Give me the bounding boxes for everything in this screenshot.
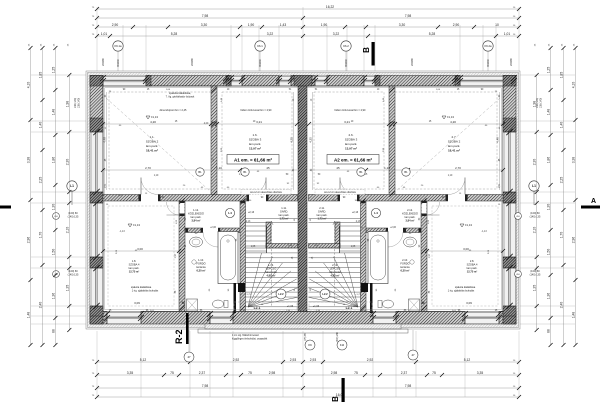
svg-text:1.8.: 1.8.	[132, 259, 137, 263]
extension line top short x259	[258, 25, 260, 71]
svg-text:szer-2 cm akusztikus díszülés: szer-2 cm akusztikus díszülés	[250, 191, 283, 194]
svg-text:M: M	[182, 301, 185, 305]
szoba4 dim line right	[425, 247, 505, 253]
room label 2.7 SZOBA 2	[448, 135, 461, 153]
interior face outline	[103, 86, 503, 312]
svg-text:3,21: 3,21	[344, 120, 350, 124]
window spec right 2	[530, 270, 541, 276]
door jamb block 421.5,201	[422, 201, 427, 203]
area label A1	[227, 155, 279, 165]
svg-text:4,20: 4,20	[450, 120, 456, 124]
svg-text:L1: L1	[70, 184, 74, 188]
svg-text:3,84 m²: 3,84 m²	[406, 219, 415, 223]
marker L1 right	[529, 181, 539, 191]
dashed line room 2.6	[314, 92, 384, 189]
svg-text:lam.park.: lam.park.	[467, 266, 478, 270]
ceiling dashed outline room 2.7	[395, 92, 497, 189]
svg-text:M: M	[422, 301, 425, 305]
top dimension chain halves	[95, 14, 521, 20]
svg-text:5,28: 5,28	[171, 32, 178, 36]
window right W10	[503, 132, 516, 192]
jamb tick side y132 x96.5	[93, 129, 99, 135]
jamb tick bottom x499	[496, 311, 502, 317]
svg-text:1 ríg. ujjalakítás burkolás: 1 ríg. ujjalakítás burkolás	[448, 289, 475, 292]
svg-text:A: A	[591, 198, 596, 205]
section mark B top	[362, 42, 375, 66]
leader 47 right	[412, 330, 414, 350]
svg-text:L1: L1	[532, 184, 536, 188]
svg-text:1,73 m²: 1,73 m²	[280, 217, 289, 221]
window top W5 right	[364, 76, 375, 87]
svg-text:2,93: 2,93	[290, 358, 297, 362]
interior jamb tick 363,201	[360, 198, 365, 203]
extension line right y306	[520, 305, 575, 307]
svg-text:1,40: 1,40	[560, 122, 564, 129]
window spec circle left 1	[53, 213, 60, 220]
svg-text:90/240: 90/240	[259, 59, 262, 67]
marker B1 d	[402, 168, 410, 176]
left wall pier 4	[90, 306, 103, 316]
mid wall left unit	[103, 195, 298, 202]
svg-text:2,90: 2,90	[453, 23, 460, 27]
bottom dim chain 2	[95, 371, 521, 377]
exterior wall right	[503, 76, 516, 324]
svg-text:135 (140): 135 (140)	[77, 98, 80, 108]
extension line left y75	[31, 74, 86, 76]
room label 1.10 FÜRDŐ	[196, 258, 206, 273]
interior jamb tick 214,124	[211, 121, 216, 126]
svg-text:1 ríg. ujjalakítás burkolás: 1 ríg. ujjalakítás burkolás	[132, 289, 159, 292]
svg-text:+1,06: +1,06	[287, 305, 294, 308]
jamb tick bottom x210	[207, 311, 213, 317]
svg-text:220/90: 220/90	[102, 58, 105, 66]
extension line right y324	[520, 323, 575, 325]
svg-text:1,30: 1,30	[51, 204, 55, 211]
entrance canopy dashed left	[234, 302, 297, 311]
svg-text:1,51: 1,51	[499, 183, 501, 188]
window spec right 1	[530, 212, 541, 218]
svg-text:1,70: 1,70	[39, 232, 43, 239]
extension line bottom x233	[232, 331, 234, 397]
dashed outline szoba4 left	[108, 206, 174, 306]
party wall	[298, 86, 307, 312]
svg-text:2.13.: 2.13.	[332, 263, 338, 267]
ceiling dashed outline room 1.1	[109, 92, 211, 189]
interior jamb tick 392,194	[389, 191, 394, 196]
svg-text:+1,73: +1,73	[355, 294, 361, 296]
duct wall right b	[361, 283, 368, 292]
bath/stair wall left	[240, 201, 246, 312]
right dim chain 4	[533, 73, 539, 332]
svg-text:1,85: 1,85	[560, 72, 564, 79]
top wall jamb d	[375, 76, 380, 87]
svg-text:K6.2: K6.2	[343, 44, 349, 48]
jamb tick side y268 x96.5	[93, 265, 99, 271]
diagonal fold line room 1.1	[106, 98, 211, 192]
corridor dim line left	[101, 166, 297, 172]
interior jamb tick 214,194	[211, 191, 216, 196]
svg-text:1,73 m²: 1,73 m²	[318, 217, 327, 221]
svg-text:3,38: 3,38	[572, 157, 576, 164]
svg-text:1,90: 1,90	[248, 23, 255, 27]
svg-text:3,22: 3,22	[333, 32, 340, 36]
window top W6 szoba2 right	[460, 76, 514, 87]
svg-text:+1,73: +1,73	[245, 294, 251, 296]
wall szoba4/fürdő right	[421, 201, 427, 312]
extension line left y306	[31, 305, 86, 307]
svg-text:2,13: 2,13	[356, 221, 361, 223]
top dimension chain openings	[95, 32, 521, 38]
svg-text:lam.park.: lam.park.	[129, 266, 140, 270]
svg-text:L2.2: L2.2	[278, 292, 284, 296]
jamb tick top x279	[276, 75, 282, 81]
svg-text:A1 em. = 61,66 m²: A1 em. = 61,66 m²	[234, 157, 272, 162]
left wall pier 3	[90, 257, 103, 268]
svg-text:1,48: 1,48	[572, 312, 576, 319]
marker R-2	[174, 313, 189, 344]
mid wall door right unit b	[446, 178, 468, 202]
extension line top short x242	[241, 25, 243, 71]
mid wall right unit	[309, 195, 504, 202]
extension line right y316	[520, 315, 575, 317]
extension line right y268	[520, 267, 575, 269]
svg-text:1.12.: 1.12.	[193, 208, 199, 212]
extension line top short x483	[482, 25, 484, 71]
room label 1.8 SZOBA 4	[129, 259, 140, 274]
jamb tick top x460	[457, 75, 463, 81]
section mark B bottom	[331, 378, 345, 402]
marker K6.2a	[483, 41, 493, 51]
extension line bottom x519	[518, 331, 520, 397]
extension line top short x231	[230, 25, 232, 71]
svg-text:4,25: 4,25	[290, 137, 294, 143]
gard wall right vertical	[335, 222, 340, 248]
svg-text:1,85: 1,85	[39, 72, 43, 79]
window left W9	[90, 268, 103, 306]
akusztikus note right	[315, 190, 365, 195]
bottom dim chain 1	[95, 358, 521, 364]
svg-text:18,41 m²: 18,41 m²	[448, 149, 460, 153]
marker K6.2	[341, 41, 351, 51]
sink right	[404, 237, 417, 247]
svg-text:16,22: 16,22	[326, 5, 334, 9]
svg-text:K6.1: K6.1	[257, 44, 263, 48]
svg-text:1.11.: 1.11.	[281, 206, 287, 210]
svg-text:220/90: 220/90	[411, 58, 414, 66]
jamb tick top x146	[143, 75, 149, 81]
svg-text:3,21: 3,21	[256, 120, 262, 124]
svg-text:lam.park.: lam.park.	[146, 144, 159, 148]
svg-text:3,35: 3,35	[127, 371, 134, 375]
window bottom W13	[107, 312, 141, 325]
partition wall 2.6/2.7	[389, 86, 395, 198]
corridor dim line right	[309, 166, 505, 172]
window top W3 left	[279, 76, 291, 87]
svg-text:220/90: 220/90	[510, 58, 513, 66]
svg-text:18,41 m²: 18,41 m²	[146, 149, 158, 153]
bathtub left	[218, 232, 238, 284]
svg-text:47: 47	[411, 353, 415, 357]
window spec left 1	[68, 212, 79, 218]
svg-text:13,97 m²: 13,97 m²	[345, 147, 357, 151]
svg-text:B1: B1	[243, 170, 247, 174]
corner block bottom-left	[90, 312, 103, 325]
svg-text:1,48: 1,48	[547, 109, 551, 116]
svg-text:+2,06: +2,06	[210, 227, 217, 229]
svg-text:faburkolat: faburkolat	[329, 270, 341, 274]
svg-text:B: B	[362, 47, 371, 53]
svg-text:1,40: 1,40	[39, 122, 43, 129]
interior jamb tick 182,308	[179, 305, 184, 310]
jamb tick bottom x465	[462, 311, 468, 317]
extension line bottom x373	[372, 331, 374, 397]
svg-text:B1: B1	[198, 170, 202, 174]
door jamb block 240.5,201	[241, 201, 246, 203]
svg-text:1,86: 1,86	[51, 157, 55, 164]
svg-text:(140) 135: (140) 135	[530, 215, 541, 218]
entrance canopy dashed right	[309, 302, 372, 311]
washing machine right	[409, 299, 420, 311]
marker K6.1	[255, 41, 265, 51]
svg-text:függőleges térburkólat, csapad: függőleges térburkólat, csapadék	[232, 337, 268, 340]
extension line bottom x283	[282, 331, 284, 397]
svg-text:lam.park.: lam.park.	[279, 213, 290, 217]
door jamb block 361,201	[361, 201, 366, 203]
svg-text:kerámia: kerámia	[196, 265, 206, 269]
svg-text:lam.park.: lam.park.	[405, 215, 416, 219]
jamb tick top x327	[324, 75, 330, 81]
svg-text:3,38: 3,38	[27, 157, 31, 164]
level mark szoba2 left	[146, 115, 158, 119]
svg-text:lam.park.: lam.park.	[317, 213, 328, 217]
jamb tick side y203 x509.5	[506, 200, 512, 206]
exterior wall top	[90, 76, 516, 87]
svg-text:2,98: 2,98	[269, 371, 276, 375]
svg-text:2,98: 2,98	[331, 371, 338, 375]
jamb tick top x315	[312, 75, 318, 81]
bottom dim chain 3	[95, 384, 521, 390]
room label 2.8 SZOBA 4	[467, 259, 478, 274]
svg-text:L2.1: L2.1	[346, 306, 353, 310]
jamb tick side y306 x509.5	[506, 303, 512, 309]
svg-text:em. 47: em. 47	[341, 312, 348, 314]
extension line left y324	[31, 323, 86, 325]
svg-text:SZOBA 3: SZOBA 3	[249, 138, 262, 142]
jamb tick top x231	[228, 75, 234, 81]
room label 2.11 GARD	[317, 206, 328, 221]
svg-text:4,88 m²: 4,88 m²	[331, 274, 340, 278]
interior jamb tick 392,124	[389, 121, 394, 126]
left wall pier 2	[90, 192, 103, 203]
extension line bottom x465	[464, 331, 466, 397]
svg-text:1,97: 1,97	[175, 253, 177, 258]
svg-text:+2,13: +2,13	[352, 211, 359, 214]
extension line top short x364	[363, 25, 365, 71]
gard wall right horizontal	[309, 244, 341, 249]
svg-text:45: 45	[336, 166, 340, 170]
top dimension chain total	[95, 5, 521, 11]
duct wall right a	[370, 283, 373, 313]
dashed outline szoba4 right	[432, 206, 498, 306]
corner block bottom-right	[503, 312, 516, 325]
window right W12	[503, 268, 516, 306]
room dim line upper right	[307, 120, 505, 126]
jamb tick top x364	[361, 75, 367, 81]
extension line top short x375	[374, 25, 376, 71]
door szoba4 left	[167, 202, 185, 215]
level mark szoba2 right	[442, 115, 454, 119]
diagonal fold line room 2.7	[395, 98, 500, 192]
door jamb block 403.5,228.3	[404, 228, 407, 232]
extension line top short x460	[459, 25, 461, 71]
svg-text:75: 75	[432, 371, 436, 375]
extension line bottom x416	[415, 331, 417, 397]
inner plaster line	[105, 88, 501, 310]
svg-text:5,12: 5,12	[464, 358, 471, 362]
svg-text:4,48: 4,48	[103, 137, 107, 143]
door jamb block 200.5,228.3	[201, 228, 204, 232]
extension line top short x327	[326, 25, 328, 71]
svg-text:4,20: 4,20	[204, 123, 209, 125]
extension line right y257	[520, 256, 575, 258]
extension line top short x123	[122, 25, 124, 71]
svg-text:7. fig. gézláthatóv bútorok: 7. fig. gézláthatóv bútorok	[166, 95, 195, 98]
extension line left y257	[31, 256, 86, 258]
svg-text:7,98: 7,98	[202, 384, 209, 388]
marker B1 a	[196, 168, 204, 176]
svg-text:lam.park.: lam.park.	[249, 142, 262, 146]
extension line top x519	[518, 7, 520, 71]
entrance door left	[210, 312, 233, 325]
door jamb block 179.5,201	[180, 201, 185, 203]
extension line bottom x190	[189, 331, 191, 397]
jamb tick side y306 x96.5	[93, 303, 99, 309]
svg-text:1,10: 1,10	[154, 175, 159, 177]
jamb tick top x226	[223, 75, 229, 81]
svg-text:88: 88	[547, 329, 551, 333]
toilet right	[378, 300, 394, 308]
svg-text:10: 10	[495, 23, 499, 27]
svg-text:1,01: 1,01	[504, 32, 511, 36]
right wall pier 4	[503, 306, 516, 316]
svg-text:2,40: 2,40	[560, 302, 564, 309]
svg-text:1,48: 1,48	[51, 109, 55, 116]
top dimension chain rooms	[95, 23, 521, 29]
svg-text:4,10: 4,10	[572, 82, 576, 89]
marker L2.2 right	[320, 289, 330, 299]
svg-text:90/240: 90/240	[345, 59, 348, 67]
svg-text:L4: L4	[374, 211, 378, 215]
marker L1 left	[67, 181, 77, 191]
svg-text:2,70: 2,70	[455, 166, 461, 170]
marker L4 left	[225, 208, 234, 217]
svg-text:1,98: 1,98	[65, 101, 69, 108]
window top W4 right	[315, 76, 327, 87]
svg-text:2.11.: 2.11.	[319, 206, 325, 210]
extension line left y268	[31, 267, 86, 269]
svg-text:2,90: 2,90	[112, 23, 119, 27]
svg-text:6,30 m²: 6,30 m²	[197, 269, 206, 273]
floor drain right	[410, 260, 414, 264]
bath top wall left	[185, 228, 240, 233]
mid wall door left unit a	[139, 178, 161, 202]
extension line top x303	[302, 7, 304, 71]
wall szoba4/fürdő left	[179, 201, 185, 312]
svg-text:szer-2 cm akusztikus díszülés: szer-2 cm akusztikus díszülés	[324, 191, 357, 194]
svg-text:2,30: 2,30	[533, 159, 537, 166]
svg-text:1,86: 1,86	[547, 157, 551, 164]
right wall pier 3	[503, 257, 516, 268]
svg-text:B1: B1	[359, 170, 363, 174]
jamb tick top x291	[288, 75, 294, 81]
window spec circle right 2	[515, 271, 522, 278]
svg-text:K6.1a: K6.1a	[114, 44, 122, 48]
svg-text:2,25: 2,25	[560, 177, 564, 184]
door bath right	[386, 228, 405, 248]
svg-text:GARD.: GARD.	[318, 210, 326, 214]
svg-text:+2,06: +2,06	[390, 227, 397, 229]
extension line right y192	[520, 191, 575, 193]
jamb tick side y257 x509.5	[506, 254, 512, 260]
area label A2	[327, 155, 379, 165]
svg-text:2,92: 2,92	[367, 358, 374, 362]
interior jamb tick 424,201	[421, 198, 426, 203]
extension line top short x496	[495, 25, 497, 71]
svg-text:1,25: 1,25	[547, 67, 551, 74]
corner block top-left	[90, 76, 103, 87]
leader 47 left	[188, 330, 190, 352]
jamb tick side y192 x509.5	[506, 189, 512, 195]
top wall jamb b	[226, 76, 231, 87]
marker L2.2 left	[276, 289, 286, 299]
extension line top x97	[96, 7, 98, 71]
door jamb block 179.5,213.5	[180, 214, 185, 217]
jamb tick bottom x141	[138, 311, 144, 317]
svg-text:1,50: 1,50	[547, 249, 551, 256]
svg-text:SZOBA 2: SZOBA 2	[448, 140, 461, 144]
partition wall 1.1/1.6	[211, 86, 217, 198]
interior jamb tick 363,308	[360, 305, 365, 310]
svg-text:2,10: 2,10	[65, 227, 69, 234]
jamb tick bottom x396	[393, 311, 399, 317]
svg-text:4,20: 4,20	[150, 120, 156, 124]
svg-text:dimenziópont bm = 2,45: dimenziópont bm = 2,45	[160, 109, 187, 112]
marker K6.1a	[113, 41, 123, 51]
svg-text:+2,13: +2,13	[248, 211, 255, 214]
sink left	[190, 237, 203, 247]
svg-text:1,05: 1,05	[251, 246, 256, 248]
jamb tick side y257 x96.5	[93, 254, 99, 260]
svg-text:1,25: 1,25	[51, 67, 55, 74]
svg-text:75: 75	[354, 371, 358, 375]
jamb tick top x455	[452, 75, 458, 81]
dashed line room 1.6	[222, 92, 292, 189]
jamb tick bottom x107	[104, 311, 110, 317]
corner block top-right	[503, 76, 516, 87]
svg-text:GARD.: GARD.	[280, 210, 288, 214]
svg-text:+1,06: +1,06	[313, 305, 320, 308]
jamb tick bottom x373	[370, 311, 376, 317]
interior jamb tick 424,251	[421, 248, 426, 253]
svg-text:-1,13: -1,13	[481, 231, 487, 233]
svg-text:em. 47: em. 47	[259, 312, 266, 314]
svg-text:2.7.: 2.7.	[451, 135, 456, 139]
svg-text:1,97: 1,97	[429, 253, 431, 258]
micro dimension texts extra	[105, 89, 501, 312]
jamb tick top x514	[511, 75, 517, 81]
jamb tick top x242	[239, 75, 245, 81]
marker L4 right	[371, 208, 380, 217]
